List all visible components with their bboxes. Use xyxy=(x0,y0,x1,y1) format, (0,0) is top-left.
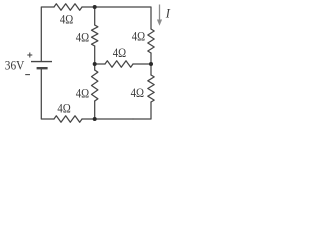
resistor R5 (middle upper, 4ohm) xyxy=(92,25,98,46)
wire: right branch, R2 to node C xyxy=(150,53,152,75)
node B junction dot xyxy=(93,62,97,66)
resistor R7 (middle horizontal, 4ohm) xyxy=(105,61,133,67)
wire: bottom-left corner to source - xyxy=(41,68,54,119)
wire: left branch top (source + to top-left corner) xyxy=(41,7,54,61)
svg-text:4Ω: 4Ω xyxy=(60,12,73,26)
wire: top, R1 to node A xyxy=(82,6,95,8)
wire: top, node A to top-right corner xyxy=(95,7,151,29)
svg-text:4Ω: 4Ω xyxy=(57,101,70,115)
resistor R2 (right upper, 4ohm) xyxy=(148,29,154,53)
node D junction dot xyxy=(93,117,97,121)
wire: R5 to node B xyxy=(94,46,96,70)
node C junction dot xyxy=(149,62,153,66)
wire: bottom, node D to bottom resistor xyxy=(82,118,133,120)
plus sign of source xyxy=(27,53,32,58)
resistor R3 (right lower, 4ohm) xyxy=(148,75,154,102)
battery V1 36V: short plate (-) xyxy=(37,67,48,69)
svg-text:4Ω: 4Ω xyxy=(76,30,89,44)
battery V1 36V: long plate (+) xyxy=(31,61,52,63)
wire: R7 to node C xyxy=(133,63,151,65)
svg-text:4Ω: 4Ω xyxy=(113,46,126,60)
resistor R1 (top, 4ohm) xyxy=(54,4,82,10)
svg-text:36V: 36V xyxy=(5,57,25,72)
svg-text:4Ω: 4Ω xyxy=(132,30,145,44)
svg-text:4Ω: 4Ω xyxy=(76,87,89,101)
svg-text:4Ω: 4Ω xyxy=(131,86,144,100)
node A junction dot xyxy=(93,5,97,9)
svg-text:I: I xyxy=(165,6,171,20)
wire: node B to R7 xyxy=(95,63,105,65)
wire: R6 to node D xyxy=(94,101,96,119)
wire: right branch bottom to bottom-right corner xyxy=(133,102,151,119)
resistor R6 (middle lower, 4ohm) xyxy=(92,70,98,101)
current arrow I xyxy=(157,5,162,26)
resistor R4 (bottom, 4ohm) xyxy=(54,116,82,122)
minus sign of source xyxy=(25,74,30,76)
wire: node A down to R5 xyxy=(94,7,96,25)
